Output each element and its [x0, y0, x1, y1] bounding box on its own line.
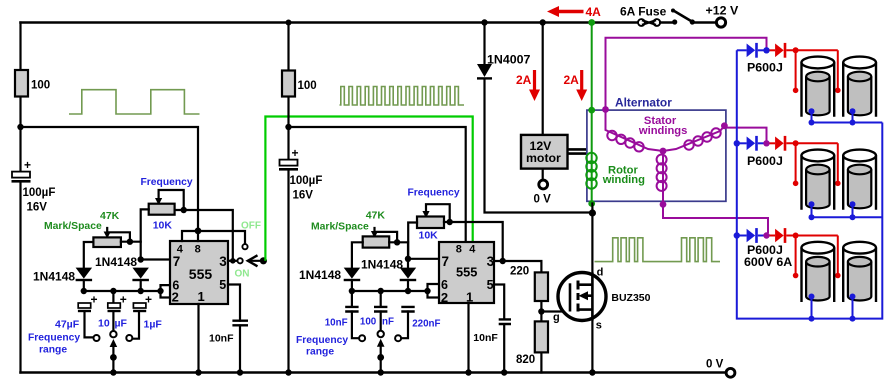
svg-text:8: 8 [456, 243, 462, 255]
svg-text:motor: motor [526, 151, 561, 165]
svg-text:10nF: 10nF [209, 333, 234, 345]
svg-text:2A: 2A [564, 73, 580, 87]
svg-text:Frequency: Frequency [408, 188, 460, 199]
svg-text:10K: 10K [419, 230, 439, 242]
svg-text:1N4148: 1N4148 [33, 270, 75, 284]
svg-text:Frequency: Frequency [141, 177, 193, 188]
svg-text:+: + [292, 146, 299, 160]
svg-text:555: 555 [189, 266, 213, 282]
svg-text:d: d [597, 267, 604, 279]
svg-text:4: 4 [469, 243, 476, 255]
svg-text:0 V: 0 V [706, 359, 724, 371]
svg-text:7: 7 [173, 254, 181, 269]
svg-text:1: 1 [466, 290, 473, 305]
svg-text:16V: 16V [293, 190, 314, 202]
svg-text:Frequency: Frequency [296, 335, 348, 346]
svg-text:OFF: OFF [241, 221, 261, 232]
svg-text:100µF: 100µF [23, 187, 56, 199]
svg-text:nF: nF [382, 317, 394, 328]
svg-text:1N4148: 1N4148 [299, 268, 341, 282]
svg-text:+: + [91, 293, 98, 307]
svg-text:5: 5 [487, 278, 494, 292]
svg-text:10: 10 [98, 318, 110, 330]
svg-text:P600J: P600J [747, 154, 783, 168]
svg-text:+12 V: +12 V [706, 4, 739, 18]
svg-text:3: 3 [219, 254, 227, 269]
svg-text:6A Fuse: 6A Fuse [620, 5, 667, 19]
svg-text:Mark/Space: Mark/Space [44, 221, 102, 232]
svg-text:10nF: 10nF [473, 332, 498, 344]
svg-text:2: 2 [441, 290, 448, 305]
svg-text:g: g [553, 312, 560, 324]
svg-text:100: 100 [360, 317, 377, 328]
svg-text:+: + [120, 293, 127, 307]
svg-text:+: + [145, 293, 152, 307]
svg-text:47K: 47K [366, 210, 386, 222]
svg-text:220nF: 220nF [412, 319, 440, 330]
svg-text:ON: ON [235, 269, 250, 280]
svg-text:4A: 4A [586, 5, 602, 19]
svg-text:1: 1 [198, 289, 205, 304]
svg-text:1N4007: 1N4007 [487, 53, 531, 67]
svg-text:820: 820 [516, 354, 535, 366]
svg-text:555: 555 [456, 265, 477, 280]
svg-text:8: 8 [195, 244, 201, 256]
svg-text:range: range [306, 347, 334, 358]
svg-text:5: 5 [219, 278, 226, 292]
svg-text:Mark/Space: Mark/Space [311, 222, 369, 233]
svg-text:P600J: P600J [747, 61, 783, 75]
svg-text:600V 6A: 600V 6A [744, 255, 792, 269]
svg-text:47µF: 47µF [55, 319, 80, 331]
svg-text:100: 100 [31, 80, 50, 92]
svg-text:µF: µF [115, 318, 128, 330]
svg-text:1N4148: 1N4148 [361, 258, 403, 272]
svg-text:BUZ350: BUZ350 [611, 292, 650, 304]
svg-text:100µF: 100µF [290, 175, 323, 187]
svg-text:220: 220 [510, 266, 529, 278]
svg-text:1N4148: 1N4148 [95, 255, 137, 269]
svg-text:1µF: 1µF [144, 319, 163, 331]
svg-text:16V: 16V [27, 202, 48, 214]
svg-text:winding: winding [602, 174, 645, 186]
svg-text:range: range [39, 345, 67, 356]
svg-text:Frequency: Frequency [28, 333, 80, 344]
svg-text:windings: windings [638, 125, 687, 137]
svg-text:10nF: 10nF [325, 318, 348, 329]
svg-text:2: 2 [172, 290, 179, 305]
svg-text:100: 100 [298, 80, 317, 92]
svg-text:+: + [24, 158, 31, 172]
svg-text:2A: 2A [516, 73, 532, 87]
svg-text:s: s [596, 320, 602, 332]
svg-text:0 V: 0 V [534, 194, 552, 206]
svg-text:Alternator: Alternator [615, 96, 672, 110]
svg-text:47K: 47K [100, 210, 120, 222]
svg-text:10K: 10K [153, 220, 173, 232]
svg-text:7: 7 [442, 254, 450, 269]
